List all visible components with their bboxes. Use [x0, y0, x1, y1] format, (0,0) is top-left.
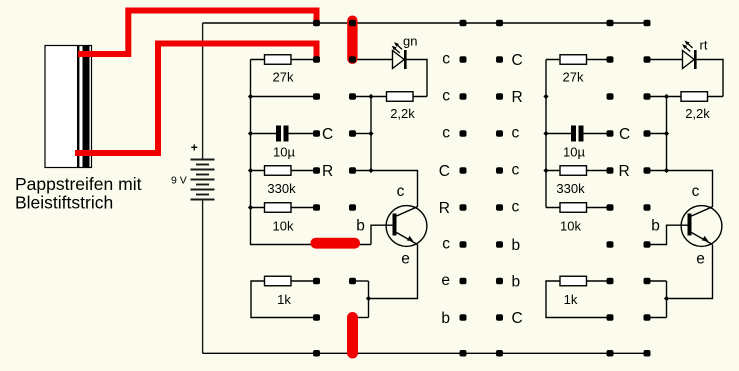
svg-text:c: c [442, 88, 450, 105]
capacitor 10µ (left) [273, 126, 295, 160]
svg-text:rt: rt [700, 38, 708, 53]
svg-text:b: b [441, 310, 450, 327]
wire row4 collector feed [650, 171, 713, 208]
right block black wiring [546, 60, 723, 318]
left block black wiring [251, 60, 428, 318]
red wire from strip top to rail [78, 11, 317, 55]
svg-text:e: e [401, 251, 410, 268]
svg-text:c: c [512, 199, 520, 216]
wire row8 jumper stub [357, 317, 369, 319]
wire base link to row6 [371, 225, 393, 244]
svg-text:b: b [512, 274, 521, 291]
wire 1k to dot [587, 280, 609, 282]
breadboard contact dots [313, 20, 651, 357]
red jumper capsule row6 [311, 238, 361, 249]
svg-text:27k: 27k [273, 70, 294, 85]
wire emitter down and to row7/8 vertical [369, 245, 418, 318]
resistor 330k (left) [265, 166, 292, 176]
wire 1k branch vertical and row8 [546, 281, 608, 318]
resistor 1k (left) [265, 276, 292, 286]
resistor 10k (left) [265, 203, 292, 213]
wire top rail [203, 22, 650, 24]
resistor 10k (right) [560, 203, 587, 213]
red jumper capsule row8-to-rail [347, 312, 358, 359]
svg-text:gn: gn [403, 34, 417, 49]
wire row3 dot to vertical [356, 133, 372, 135]
svg-text:c: c [397, 183, 405, 200]
svg-text:c: c [442, 236, 450, 253]
wire row7 dot to vertical [356, 280, 369, 282]
wire 1k to dot [291, 280, 314, 282]
svg-text:10k: 10k [560, 219, 581, 234]
svg-text:b: b [512, 237, 521, 254]
svg-text:1k: 1k [277, 292, 291, 307]
wire row4 collector feed [356, 171, 418, 208]
wire row1 LED branch [650, 60, 723, 97]
resistor 1k (right) [560, 276, 587, 286]
svg-text:10µ: 10µ [273, 145, 295, 160]
svg-text:10µ: 10µ [563, 145, 585, 160]
resistor 2,2k (right) [681, 92, 708, 102]
wire vertical x666.5 rows2-4 [666, 97, 668, 171]
wire row1 bus to 27k to dot [251, 59, 314, 61]
svg-text:c: c [512, 162, 520, 179]
svg-text:2,2k: 2,2k [685, 106, 710, 121]
svg-text:R: R [619, 163, 630, 180]
wire right bus [545, 60, 547, 208]
wire row5 bus-10k-dot [546, 207, 608, 209]
svg-text:c: c [442, 51, 450, 68]
wire row1 bus-27k-dot [546, 59, 608, 61]
svg-text:C: C [322, 126, 333, 143]
wire row4 bus to 330k to dot [251, 170, 314, 172]
svg-text:Pappstreifen mit: Pappstreifen mit [15, 174, 142, 194]
svg-text:9 V: 9 V [171, 175, 187, 187]
svg-text:10k: 10k [273, 219, 294, 234]
svg-text:b: b [651, 218, 660, 235]
transistor T2 (right, NPN) [651, 183, 722, 268]
wire 1k branch vertical and row8 to dot [251, 281, 314, 318]
wire row2 2.2k branch [650, 96, 723, 98]
resistor 27k (left) [265, 55, 292, 65]
svg-text:2,2k: 2,2k [390, 106, 415, 121]
wire base link to row6 dot [650, 225, 688, 244]
wire emitter down to vertical [667, 245, 713, 318]
resistor 27k (right) [560, 55, 587, 65]
svg-text:Bleistiftstrich: Bleistiftstrich [15, 193, 113, 213]
capacitor 10µ (right) [563, 126, 585, 160]
wire row3 bus-cap-dot [546, 133, 608, 135]
LED gn (left) [392, 34, 418, 70]
svg-text:C: C [439, 163, 450, 180]
svg-text:c: c [512, 125, 520, 142]
resistor 330k (right) [560, 166, 587, 176]
svg-text:b: b [356, 218, 365, 235]
svg-text:c: c [442, 125, 450, 142]
wire left bus (left block) [251, 60, 372, 245]
svg-text:1k: 1k [564, 292, 578, 307]
svg-text:R: R [322, 163, 333, 180]
battery B1 9V [191, 23, 215, 353]
wire vertical x371 rows2-4 [370, 97, 372, 171]
LED rt (right) [682, 38, 708, 70]
wire row3 bus to cap to dot [251, 133, 314, 135]
svg-text:C: C [619, 126, 630, 143]
breadboard row letters (right column) [512, 52, 523, 327]
wire row3 dot to vertical [650, 133, 667, 135]
transistor T1 (left, NPN) [356, 183, 427, 268]
svg-text:C: C [512, 52, 523, 69]
Pappstreifen sensor strip [45, 46, 92, 168]
breadboard row letters (left column) [439, 51, 450, 328]
red jumper capsule rail-to-row1 [347, 16, 357, 65]
wire row2 bus to dot [251, 96, 314, 98]
label Pappstreifen mit Bleistiftstrich [15, 174, 142, 213]
svg-text:R: R [439, 200, 450, 217]
wire row2 2.2k branch [356, 96, 428, 98]
svg-text:+: + [191, 141, 198, 155]
svg-text:330k: 330k [267, 181, 296, 196]
wire row5 bus to 10k to dot [251, 207, 314, 209]
svg-text:e: e [696, 251, 705, 268]
svg-text:R: R [512, 89, 523, 106]
resistor 2,2k (left) [387, 92, 414, 102]
svg-text:330k: 330k [556, 181, 585, 196]
wire row1 LED branch [356, 60, 428, 97]
svg-text:27k: 27k [563, 70, 584, 85]
svg-text:c: c [692, 183, 700, 200]
wire row7 dot to vertical [650, 280, 667, 282]
red wire from strip bottom to row1 [75, 44, 317, 154]
wire bottom rail [203, 352, 651, 354]
wire row8 dot to vertical [650, 317, 667, 319]
svg-text:e: e [441, 272, 450, 289]
svg-text:C: C [512, 310, 523, 327]
wire row4 bus-330k-dot [546, 170, 608, 172]
